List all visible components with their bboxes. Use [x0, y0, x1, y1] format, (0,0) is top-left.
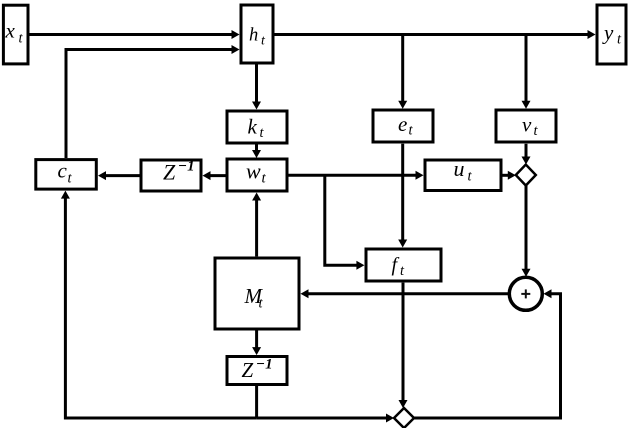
box x_t [3, 5, 28, 64]
wire diamond D2 to adder [414, 289, 561, 418]
wire f_t to diamond D2 [399, 283, 408, 408]
wire Z1 to c_t [98, 171, 140, 180]
wire branch to v_t [522, 35, 531, 109]
wire M_t to Z2 [252, 331, 261, 356]
wire x_t to h_t [28, 30, 240, 39]
box u_t [425, 156, 501, 191]
box c_t [36, 159, 97, 190]
wire bottom rail to c_t [61, 191, 257, 418]
diamond D2 (multiplier) [394, 408, 414, 428]
svg-text:v: v [522, 113, 532, 137]
wire h_t to k_t [252, 64, 261, 110]
svg-text:c: c [58, 159, 68, 183]
wire diamond D1 to adder [522, 186, 531, 277]
wire branch to f_t [325, 175, 365, 269]
svg-text:u: u [454, 156, 465, 181]
adder (plus circle) [509, 277, 542, 310]
wire w_t to u_t [288, 171, 424, 180]
box M_t [215, 258, 299, 329]
svg-text:Z: Z [163, 159, 176, 184]
wire h_t to y_t [275, 30, 596, 39]
wire M_t to w_t [252, 193, 261, 257]
wire e_t to f_t [398, 144, 407, 248]
wire k_t to w_t [252, 144, 261, 159]
svg-text:−1: −1 [178, 159, 195, 175]
box k_t [227, 111, 287, 143]
svg-text:y: y [602, 21, 614, 45]
wire u_t to diamond D1 [502, 171, 516, 180]
wire branch to e_t [398, 35, 407, 109]
svg-text:h: h [249, 26, 258, 46]
diamond D1 (multiplier) [516, 165, 536, 186]
svg-text:w: w [246, 159, 261, 184]
wire v_t to diamond D1 [522, 144, 531, 165]
box w_t [227, 159, 287, 192]
wire adder to M_t [301, 289, 509, 298]
svg-text:−1: −1 [256, 357, 273, 373]
svg-text:x: x [5, 19, 16, 43]
box Z2 (z^-1) [227, 357, 287, 385]
box y_t [597, 5, 626, 64]
svg-text:k: k [248, 115, 258, 139]
wire w_t to Z1 [203, 171, 227, 180]
wire c_t feedback to h_t [66, 45, 240, 158]
svg-text:Z: Z [242, 358, 254, 382]
box f_t [366, 249, 441, 281]
svg-text:e: e [398, 112, 407, 136]
box v_t [496, 110, 556, 142]
box Z1 (z^-1) [141, 159, 201, 192]
box e_t [373, 110, 433, 142]
wire Z2 to bottom rail [255, 385, 258, 418]
wire bottom rail to diamond D2 [257, 414, 394, 423]
box h_t [241, 5, 273, 63]
